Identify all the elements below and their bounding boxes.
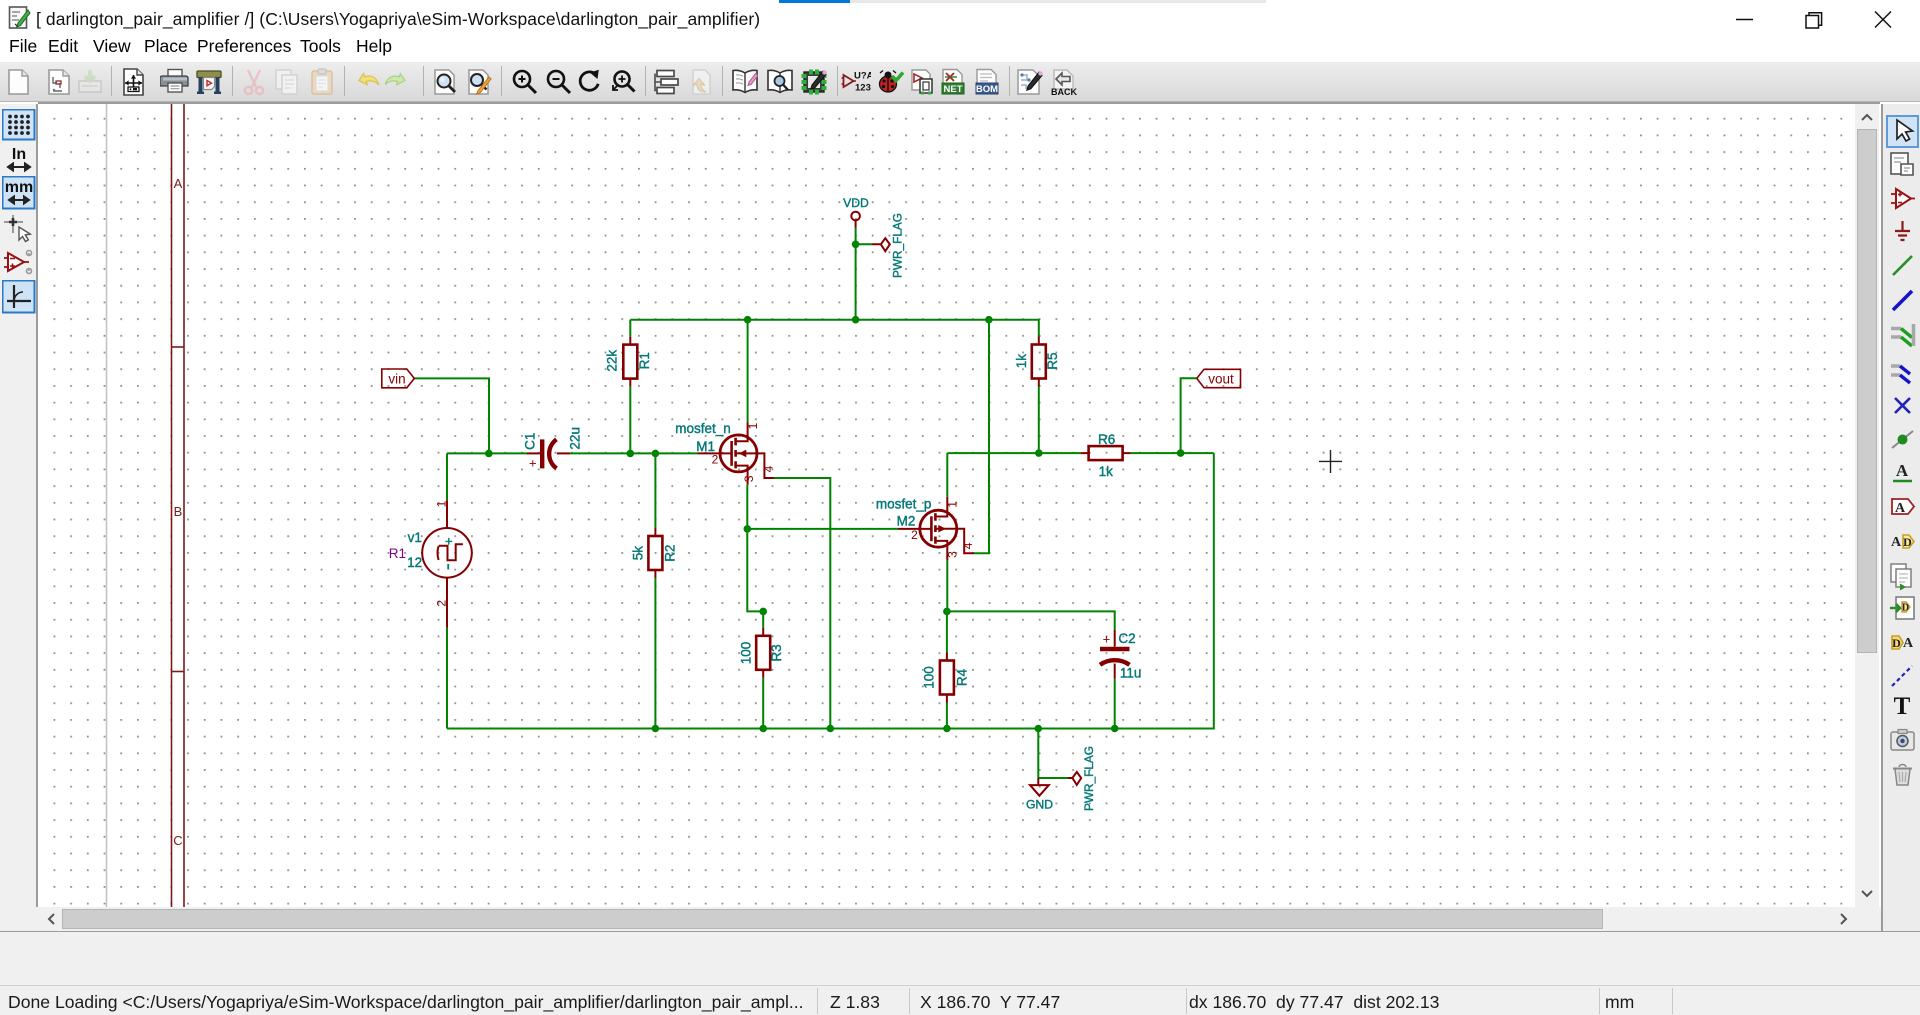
svg-text:vout: vout bbox=[1208, 371, 1234, 386]
svg-text:T: T bbox=[1894, 693, 1911, 720]
svg-text:R2: R2 bbox=[662, 544, 677, 561]
svg-text:mm: mm bbox=[5, 179, 33, 196]
svg-text:100: 100 bbox=[922, 666, 937, 689]
svg-text:2: 2 bbox=[434, 600, 448, 607]
svg-text:v1: v1 bbox=[408, 530, 422, 545]
svg-text:2: 2 bbox=[911, 528, 918, 542]
svg-text:PWR_FLAG: PWR_FLAG bbox=[1082, 746, 1096, 811]
svg-text:U?A: U?A bbox=[854, 71, 871, 82]
svg-text:M2: M2 bbox=[897, 513, 916, 528]
svg-text:D: D bbox=[1902, 603, 1909, 614]
svg-text:GND: GND bbox=[1026, 798, 1053, 812]
svg-text:4: 4 bbox=[961, 542, 975, 549]
svg-text:5k: 5k bbox=[631, 546, 646, 561]
svg-text:11u: 11u bbox=[1120, 666, 1142, 681]
svg-text:NET: NET bbox=[944, 84, 963, 95]
svg-text:R4: R4 bbox=[955, 668, 970, 686]
svg-text:mosfet_n: mosfet_n bbox=[675, 421, 731, 436]
svg-text:3: 3 bbox=[742, 475, 756, 482]
svg-text:1k: 1k bbox=[1099, 464, 1114, 479]
svg-text:C1: C1 bbox=[523, 433, 538, 450]
svg-text:+: + bbox=[1103, 632, 1111, 647]
svg-text:+: + bbox=[445, 534, 453, 549]
svg-text:A: A bbox=[1903, 636, 1914, 651]
svg-text:PWR_FLAG: PWR_FLAG bbox=[891, 213, 905, 278]
svg-text:A: A bbox=[1896, 461, 1909, 480]
svg-text:1: 1 bbox=[434, 500, 448, 507]
svg-text:A: A bbox=[1891, 535, 1902, 550]
svg-text:C: C bbox=[173, 833, 182, 848]
svg-text:+: + bbox=[529, 456, 537, 471]
svg-text:3: 3 bbox=[946, 551, 960, 558]
svg-text:BACK: BACK bbox=[1051, 87, 1077, 97]
svg-text:12: 12 bbox=[407, 555, 422, 570]
svg-text:D: D bbox=[1903, 535, 1912, 549]
svg-text:mosfet_p: mosfet_p bbox=[876, 497, 932, 512]
svg-text:BOM: BOM bbox=[976, 84, 998, 95]
svg-text:A: A bbox=[1895, 501, 1906, 516]
svg-text:vin: vin bbox=[388, 371, 405, 386]
svg-text:22k: 22k bbox=[605, 350, 620, 372]
svg-text:R1: R1 bbox=[637, 352, 652, 369]
svg-text:VDD: VDD bbox=[843, 196, 869, 210]
svg-text:4: 4 bbox=[762, 465, 776, 472]
svg-text:R3: R3 bbox=[769, 644, 784, 661]
svg-text:100: 100 bbox=[739, 642, 754, 665]
svg-text:R5: R5 bbox=[1045, 352, 1060, 369]
svg-text:B: B bbox=[174, 504, 183, 519]
svg-text:A: A bbox=[174, 176, 183, 191]
svg-text:C2: C2 bbox=[1118, 631, 1135, 646]
svg-text:R6: R6 bbox=[1098, 432, 1115, 447]
svg-text:1: 1 bbox=[746, 422, 760, 429]
svg-text:1: 1 bbox=[946, 501, 960, 508]
svg-text:123: 123 bbox=[855, 83, 871, 94]
svg-text:D: D bbox=[1892, 636, 1901, 650]
svg-text:2: 2 bbox=[712, 453, 719, 467]
svg-text:In: In bbox=[12, 146, 26, 163]
svg-text:1k: 1k bbox=[1014, 354, 1029, 369]
svg-text:22u: 22u bbox=[568, 427, 583, 450]
svg-text:R1: R1 bbox=[389, 546, 406, 561]
